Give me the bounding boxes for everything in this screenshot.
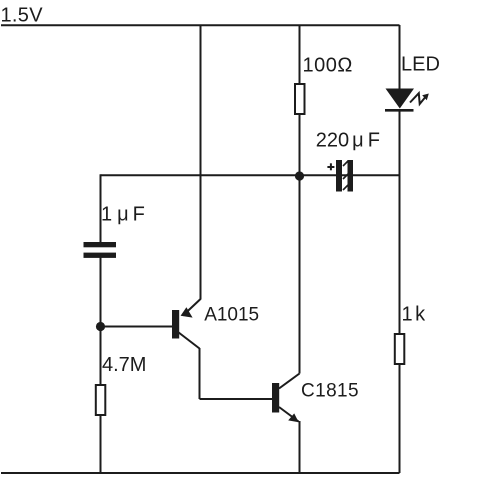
svg-text:1k: 1k bbox=[402, 304, 427, 326]
svg-text:LED: LED bbox=[401, 54, 440, 76]
junction node: mid wire / 220uF / 100ohm bbox=[295, 171, 304, 180]
resistor 4.7M bbox=[96, 385, 106, 415]
wire: 100ohm to C1815 collector corner bbox=[299, 112, 301, 374]
capacitor 1uF plate bottom bbox=[84, 253, 117, 258]
svg-text:1.5V: 1.5V bbox=[1, 5, 44, 27]
transistor Q2 C1815 emitter arrowhead bbox=[288, 413, 299, 422]
LED D1 anode triangle bbox=[386, 89, 415, 109]
wire: 1uF cap to bottom rail bbox=[100, 257, 102, 473]
transistor Q2 C1815 base bar bbox=[272, 383, 279, 413]
wire: A1015 base wire bbox=[101, 326, 173, 328]
capacitor 220uF polarity plus sign bbox=[327, 163, 334, 170]
capacitor 220uF minus plate bbox=[348, 160, 354, 192]
svg-text:4.7M: 4.7M bbox=[102, 354, 146, 376]
svg-text:100Ω: 100Ω bbox=[303, 55, 353, 77]
wire: LED column top bbox=[399, 25, 401, 90]
LED D1 cathode bar bbox=[385, 109, 414, 112]
wire: A1015 emitter diagonal bbox=[200, 25, 202, 300]
junction node: 1uF / 4.7M / A1015 base bbox=[96, 322, 105, 331]
wire: 100ohm column top bbox=[299, 25, 301, 86]
wire: LED cathode down to bottom rail bbox=[399, 111, 401, 473]
power rail 1.5V (top) bbox=[1, 24, 400, 26]
svg-text:1μF: 1μF bbox=[101, 203, 145, 225]
resistor 1k bbox=[395, 334, 405, 364]
wire: C1815 collector diagonal bbox=[279, 374, 300, 389]
resistor 100ohm bbox=[295, 84, 305, 114]
wire: 1uF column from mid wire to cap bbox=[100, 174, 102, 243]
transistor Q1 A1015 base bar bbox=[172, 310, 179, 339]
wire: C1815 emitter diagonal bbox=[279, 407, 299, 422]
LED D1 flash arrow bbox=[410, 93, 425, 104]
ground rail (bottom) bbox=[1, 472, 400, 474]
wire: A1015 collector vertical bbox=[199, 348, 201, 399]
wire: A1015 collector diagonal bbox=[178, 332, 200, 349]
wire: middle horizontal net (cap node) bbox=[101, 174, 400, 176]
wire: C1815 base horizontal bbox=[200, 398, 273, 400]
svg-text:220μF: 220μF bbox=[316, 129, 380, 151]
svg-text:C1815: C1815 bbox=[301, 381, 359, 402]
transistor Q1 A1015 emitter arrowhead bbox=[181, 307, 193, 317]
capacitor 1uF plate top bbox=[84, 242, 117, 247]
svg-text:A1015: A1015 bbox=[204, 305, 259, 326]
wire: C1815 emitter vertical bbox=[299, 421, 301, 473]
capacitor 220uF plus plate bbox=[336, 160, 342, 192]
capacitor 220uF gap hatch marks bbox=[343, 161, 348, 190]
